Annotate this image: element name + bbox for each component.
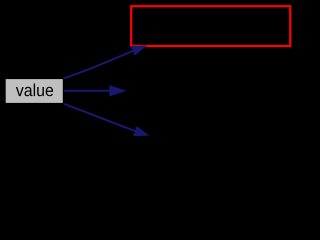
node N1 value (grey fill) xyxy=(6,79,63,103)
dependency graph canvas xyxy=(0,0,315,183)
wire edge2 value->N3 (horizontal) xyxy=(64,90,109,92)
wire edge1 value->N2 (spline) xyxy=(64,51,133,79)
wire edge3 value->N4 (diagonal) xyxy=(64,104,135,131)
node N2 (red, truncated graph indicator) xyxy=(131,6,290,46)
node N1 label "value" xyxy=(16,84,53,97)
edge1 arrowhead xyxy=(131,46,146,55)
edge2 arrowhead xyxy=(110,86,126,97)
edge3 arrowhead xyxy=(133,127,148,136)
